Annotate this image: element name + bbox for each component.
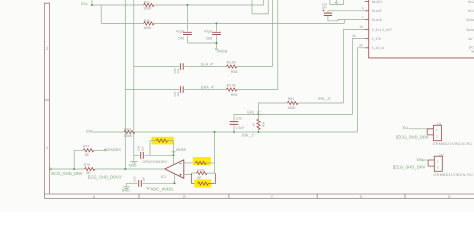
svg-text:MU4T1: MU4T1 [372, 0, 383, 4]
junction R64 bottom [258, 131, 260, 133]
wire ELL row y=5 left of R11 [92, 4, 144, 6]
wire op-amp upper input [184, 162, 196, 164]
wire ELA row mid [184, 66, 226, 68]
resistor RF3 highlighted [198, 182, 209, 185]
wire C10 bottom jog to pin3 row [328, 16, 365, 24]
pin stub 2 [365, 10, 369, 12]
pin stub 5 [365, 38, 369, 40]
wire ELL to J11 [409, 128, 427, 130]
svg-text:D: D [360, 195, 363, 199]
ground AVSS symbol [215, 48, 218, 50]
svg-text:C56: C56 [206, 36, 213, 40]
wire red loop right [208, 173, 215, 183]
wire ELL vertical stub to top edge [91, 0, 93, 5]
junction C56 top [216, 22, 218, 24]
svg-text:C40: C40 [178, 36, 185, 40]
svg-text:1: 1 [436, 128, 438, 132]
svg-text:ECG_SHD_DRV1": ECG_SHD_DRV1" [88, 175, 124, 180]
capacitor C86 [126, 182, 137, 184]
svg-text:R16: R16 [144, 19, 151, 23]
junction C40 top [186, 4, 188, 6]
svg-text:100K: 100K [124, 134, 133, 138]
wire ELA row y=66.5 left of cap [134, 66, 179, 68]
svg-text:47µF: 47µF [176, 30, 185, 34]
capacitor C55 [180, 63, 183, 69]
wire R77 branch vertical [74, 150, 83, 169]
svg-text:ERL_2": ERL_2" [318, 97, 332, 101]
svg-text:1: 1 [437, 159, 439, 163]
wire R16 row y=23.4 left segment [101, 22, 143, 24]
wire long vertical V2 x=134 [133, 0, 135, 155]
capacitor C84 [134, 154, 140, 156]
wire R61 left drop to rail [258, 103, 260, 114]
capacitor C56 [212, 32, 221, 34]
resistor RF1 highlighted [150, 140, 156, 142]
frame left border [45, 3, 50, 199]
pin stub 6 [365, 47, 369, 49]
svg-text:GRMB021VWCN-RC: GRMB021VWCN-RC [433, 142, 473, 146]
svg-text:VGA4: VGA4 [466, 28, 474, 32]
svg-text:[ECG_SHD_DRV: [ECG_SHD_DRV [393, 165, 426, 170]
svg-text:ELL: ELL [403, 126, 409, 130]
junction V- node [174, 182, 176, 184]
wire ERA row y=89.5 left of cap [125, 89, 179, 91]
junction rail x=258.5 [258, 113, 260, 115]
svg-text:OPA2330DBV: OPA2330DBV [143, 160, 168, 164]
svg-text:B: B [183, 195, 186, 199]
wire C40 top stub [186, 5, 188, 31]
resistor R77 [83, 149, 94, 152]
wire red loop left [192, 173, 198, 183]
svg-text:AVSS: AVSS [176, 148, 186, 152]
svg-text:2: 2 [437, 166, 439, 170]
wire ERL row y=132 right of R63 [135, 131, 358, 133]
svg-text:R11: R11 [144, 0, 150, 4]
junction output x=74.2 [73, 168, 75, 170]
wire bridge corner x=268.2 [252, 0, 268, 14]
svg-text:7: 7 [362, 15, 364, 19]
junction V+ node [173, 154, 175, 156]
resistor R59 [226, 88, 237, 91]
svg-text:R59: R59 [231, 93, 238, 97]
svg-text:A: A [93, 195, 96, 199]
capacitor C40 [183, 32, 192, 34]
svg-text:30: 30 [359, 44, 363, 48]
wire op-amp V+ stub [173, 155, 175, 164]
svg-text:VGA4: VGA4 [466, 18, 474, 22]
svg-text:40.2K: 40.2K [227, 84, 237, 88]
svg-text:ECG_SHD_DRV: ECG_SHD_DRV [51, 171, 83, 176]
wire R61 row right to pin4 vertical [298, 102, 344, 104]
supply ADC_AVDD label [146, 187, 150, 189]
svg-text:E: E [448, 195, 451, 199]
junction feedback x=214.5 [214, 131, 216, 133]
svg-text:1K: 1K [252, 123, 256, 127]
polarity mark C10 [322, 9, 324, 11]
svg-text:[ECG_SHD_DRV: [ECG_SHD_DRV [396, 135, 429, 140]
wire ERA row right, corner up to top [237, 0, 278, 90]
svg-text:RLA29: RLA29 [372, 18, 382, 22]
wire C56 bottom stub [216, 35, 218, 43]
wire R61 row y=103 left [259, 102, 288, 104]
svg-text:AVSS: AVSS [217, 49, 227, 53]
svg-text:CHASIS: CHASIS [107, 148, 122, 152]
wire R77 to CHASIS [94, 149, 105, 151]
svg-text:1: 1 [46, 146, 48, 150]
resistor RF2 highlighted [194, 162, 196, 164]
svg-text:40.2K: 40.2K [227, 61, 237, 65]
svg-text:100K: 100K [143, 7, 152, 11]
wire ERL to J12 [422, 159, 429, 161]
svg-text:1uF: 1uF [140, 146, 144, 151]
svg-text:C23: C23 [236, 117, 242, 121]
svg-text:9: 9 [362, 6, 364, 10]
wire yellow1 left drop [149, 141, 151, 156]
svg-text:HC2: HC2 [468, 0, 474, 4]
svg-text:C55: C55 [173, 68, 177, 74]
ground GND1 [133, 155, 135, 161]
svg-text:GND: GND [122, 188, 130, 192]
svg-text:1uF: 1uF [141, 176, 145, 181]
wire R16 row y=23.4 right segment [154, 22, 344, 24]
wire top U with port arrow [330, 0, 344, 4]
svg-text:R61: R61 [288, 97, 295, 101]
highlight box 1 [152, 137, 174, 145]
wire rail y=114.4 [234, 113, 353, 115]
frame bottom border [45, 194, 474, 199]
junction C23 bottom [233, 131, 235, 133]
junction output x=125.3 [124, 168, 126, 170]
wire feedback vertical x=214.5 [214, 132, 216, 173]
svg-text:10n: 10n [322, 6, 327, 10]
capacitor C23 [233, 114, 235, 121]
connector U2 box [369, 0, 474, 58]
wire corner up to top at x=263.7 [263, 0, 265, 5]
svg-text:R64: R64 [261, 121, 265, 127]
resistor R58 [226, 65, 237, 68]
resistor R64 vertical [258, 114, 260, 119]
node CHASIS label [104, 149, 106, 151]
svg-text:C86: C86 [132, 176, 136, 182]
pin stub 4 [365, 28, 369, 30]
svg-text:IC1: IC1 [161, 175, 167, 179]
svg-text:ERA_4": ERA_4" [201, 86, 215, 90]
resistor R16 [144, 22, 155, 25]
wire C56 top stub [216, 23, 218, 31]
wire branch down to R16 row [100, 5, 102, 23]
highlight box 2 [193, 157, 211, 165]
op-amp IC1 [165, 160, 184, 179]
svg-text:R77: R77 [83, 145, 90, 149]
wire pin4 row to R61 [344, 29, 365, 103]
resistor R76 [84, 167, 95, 170]
svg-text:47µF: 47µF [204, 30, 213, 34]
junction ELL [91, 4, 93, 6]
svg-text:ADC_AVDD: ADC_AVDD [151, 186, 174, 191]
svg-text:HC3: HC3 [468, 9, 474, 13]
wire pin6 row to ERL row [358, 48, 365, 132]
svg-text:RLA2F: RLA2F [372, 9, 382, 13]
svg-text:GND: GND [129, 164, 137, 168]
svg-text:R63: R63 [124, 127, 131, 131]
highlight box 3 [194, 179, 211, 187]
wire ERL row y=132 start [94, 131, 125, 133]
wire output row right of R76 [95, 168, 165, 170]
svg-text:2: 2 [46, 47, 48, 51]
wire ELA row right, corner up to top [237, 0, 272, 67]
svg-text:GRMB021VWCN-RC: GRMB021VWCN-RC [434, 173, 474, 177]
svg-text:ERL_1": ERL_1" [247, 111, 261, 115]
wire ERA row mid [184, 89, 226, 91]
svg-text:100K: 100K [143, 26, 152, 30]
svg-text:C57: C57 [173, 91, 177, 97]
wire long vertical V1 x=125.3 [124, 0, 126, 169]
svg-text:R76: R76 [84, 163, 91, 167]
wire op-amp V- stub [174, 174, 176, 183]
wire op-amp lower input [184, 174, 192, 176]
pin stub 3 [365, 19, 369, 21]
wire C40 bottom stub [186, 35, 188, 43]
capacitor C57 [180, 86, 183, 92]
resistor R11 [144, 3, 155, 6]
resistor R63 [124, 130, 135, 133]
svg-text:5_3O_B: 5_3O_B [372, 46, 385, 50]
svg-text:ELL: ELL [81, 2, 88, 6]
resistor R61 [287, 101, 298, 104]
wire pin5 row to rail [353, 39, 365, 115]
wire pin2 row to C10 top [328, 11, 365, 13]
pin stub 1 [365, 1, 369, 3]
svg-text:5_3V1 5_3CT: 5_3V1 5_3CT [372, 28, 392, 32]
svg-text:ERL_1": ERL_1" [242, 134, 256, 138]
port arrow down [335, 0, 338, 4]
port marker output start [49, 168, 51, 170]
supply AVSS arrow at op-amp [172, 151, 176, 153]
svg-text:R58: R58 [231, 70, 238, 74]
svg-text:0E: 0E [85, 153, 90, 157]
svg-text:100K: 100K [287, 106, 296, 110]
svg-text:26: 26 [352, 34, 356, 38]
svg-text:ERL: ERL [86, 130, 93, 134]
wire cap bottoms join y=43 [187, 43, 216, 49]
svg-text:C: C [271, 195, 274, 199]
svg-text:ELA_4": ELA_4" [201, 62, 214, 66]
wire yellow1 right drop [173, 141, 175, 156]
svg-text:1.5nF: 1.5nF [236, 126, 245, 130]
wire ELL row y=5 right of R11 [154, 4, 264, 6]
junction AVSS [216, 42, 218, 44]
svg-text:0E: 0E [197, 176, 202, 180]
wire op-amp output row y=169 [51, 168, 85, 170]
svg-text:5_3TK: 5_3TK [372, 37, 383, 41]
ground GND2 [125, 183, 127, 186]
svg-text:20: 20 [359, 25, 363, 29]
svg-text:2: 2 [436, 134, 438, 138]
